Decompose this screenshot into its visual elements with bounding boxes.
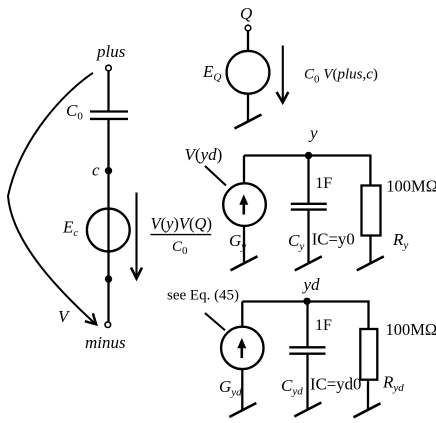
- svg-text:minus: minus: [85, 333, 126, 352]
- svg-text:Q: Q: [240, 4, 252, 23]
- wire: [107, 120, 109, 322]
- svg-text:see Eq. (45): see Eq. (45): [167, 288, 239, 304]
- wire: [241, 369, 243, 410]
- pointer line: [205, 313, 225, 330]
- wire: [247, 31, 249, 51]
- capacitor Cy: [291, 204, 327, 210]
- voltage source Ec: [87, 209, 130, 252]
- wire: [307, 210, 309, 264]
- wire: [241, 302, 243, 328]
- wire bus y: [244, 156, 370, 186]
- wire: [367, 380, 369, 410]
- ground: [357, 256, 384, 270]
- svg-text:y: y: [308, 124, 318, 143]
- voltage source EQ: [227, 51, 270, 94]
- node y: [305, 152, 312, 159]
- ground: [229, 403, 256, 417]
- ground: [235, 115, 262, 129]
- terminal plus: [106, 65, 112, 71]
- svg-text:plus: plus: [96, 42, 126, 61]
- capacitor C0: [90, 112, 128, 119]
- wire: [247, 94, 249, 122]
- value label V(y)V(Q)/C0: [151, 214, 212, 257]
- node c: [105, 167, 112, 174]
- voltage arc arrow V: [8, 73, 96, 324]
- svg-text:100MΩ: 100MΩ: [386, 176, 436, 195]
- wire: [243, 156, 245, 184]
- wire: [369, 236, 371, 264]
- ground: [294, 403, 321, 417]
- svg-text:1F: 1F: [315, 175, 332, 192]
- ground: [295, 256, 322, 270]
- svg-text:c: c: [92, 161, 100, 180]
- current arrow Ec: [131, 193, 142, 279]
- svg-text:yd: yd: [302, 275, 321, 294]
- node yd: [303, 298, 310, 305]
- pointer line: [205, 166, 226, 186]
- ground: [231, 256, 258, 270]
- ground: [354, 403, 381, 417]
- wire: [307, 156, 309, 203]
- resistor Ryd: [360, 329, 377, 380]
- current source Gyd: [221, 327, 263, 369]
- svg-text:IC=yd0: IC=yd0: [310, 375, 361, 394]
- svg-text:1F: 1F: [315, 317, 332, 334]
- node junction: [105, 275, 112, 282]
- wire bus yd: [242, 302, 368, 330]
- svg-text:V(y)V(Q): V(y)V(Q): [151, 214, 212, 233]
- svg-text:IC=y0: IC=y0: [312, 230, 355, 249]
- terminal Q: [245, 25, 251, 31]
- wire: [306, 302, 308, 347]
- wire: [306, 354, 308, 410]
- current source Gy: [223, 183, 266, 226]
- wire: [107, 71, 109, 111]
- svg-text:V(yd): V(yd): [185, 145, 223, 164]
- current arrow EQ: [277, 46, 289, 103]
- terminal minus: [105, 322, 111, 328]
- svg-text:100MΩ: 100MΩ: [386, 320, 436, 339]
- resistor Ry: [362, 186, 381, 236]
- wire: [243, 226, 245, 263]
- capacitor Cyd: [289, 347, 325, 353]
